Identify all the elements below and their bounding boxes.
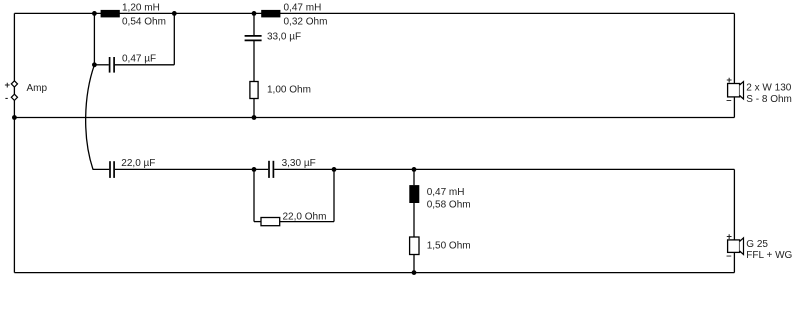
wire C4 to speaker lead — [274, 168, 734, 170]
inductor L1 1,20 mH body — [101, 10, 120, 18]
wire left vertical from top rail to + terminal — [13, 13, 15, 80]
svg-text:0,32 Ohm: 0,32 Ohm — [284, 17, 328, 28]
wire C1 right plate to right riser — [115, 64, 175, 66]
node A (C4 left, R2 top) — [252, 167, 257, 172]
wire to R2 left — [254, 221, 261, 223]
wire node A down to R2 — [253, 169, 255, 221]
wire riser up to top rail at L1 right — [173, 13, 175, 64]
resistor R3 1,50 Ohm — [410, 237, 419, 255]
svg-text:1,00 Ohm: 1,00 Ohm — [267, 84, 311, 95]
svg-text:0,47 µF: 0,47 µF — [122, 53, 156, 64]
node shunt bottom on mid rail — [252, 115, 257, 120]
amp terminal + (diamond) — [11, 81, 17, 87]
wire node C down to L3 — [413, 169, 415, 185]
wire C2 to R1 — [253, 41, 255, 82]
node at L2 left / shunt top — [252, 11, 257, 16]
speaker SP2 tweeter box — [728, 240, 740, 253]
svg-text:FFL + WG: FFL + WG — [746, 250, 792, 261]
inductor L3 0,47 mH body (vertical) — [409, 185, 419, 203]
svg-text:22,0 Ohm: 22,0 Ohm — [283, 211, 327, 222]
wire R1 to mid rail — [253, 99, 255, 118]
amp terminal - (diamond) — [11, 94, 17, 100]
svg-text:+: + — [726, 75, 732, 86]
svg-text:0,58 Ohm: 0,58 Ohm — [427, 200, 471, 211]
wire L3 to R3 — [413, 203, 415, 237]
wire mid rail (woofer section return) — [14, 117, 734, 119]
wire curved feed to tweeter branch — [86, 65, 95, 170]
capacitor C2 33,0 uF plates — [245, 36, 262, 41]
wire node to C1 left plate — [94, 64, 108, 66]
wire riser up to node B — [333, 169, 335, 221]
svg-text:+: + — [5, 80, 11, 91]
node at C1 branch / curve start — [92, 62, 97, 67]
svg-text:0,47 mH: 0,47 mH — [284, 3, 322, 14]
wire L2 shunt: node down to C2 — [253, 13, 255, 35]
svg-text:+: + — [726, 232, 732, 243]
node at L1 left — [92, 11, 97, 16]
wire C3 to node A — [115, 168, 268, 170]
svg-text:3,30 µF: 3,30 µF — [282, 158, 316, 169]
svg-text:2 x W 130: 2 x W 130 — [746, 83, 791, 94]
node L3 shunt bottom on bottom rail — [412, 270, 417, 275]
svg-text:0,47 mH: 0,47 mH — [427, 187, 465, 198]
wire bottom rail (tweeter section return) — [14, 272, 734, 274]
wire branch down from node at L1 left — [93, 13, 95, 64]
svg-text:33,0 µF: 33,0 µF — [267, 32, 301, 43]
svg-text:1,20 mH: 1,20 mH — [122, 3, 160, 14]
wire top rail — [14, 12, 734, 14]
svg-text:22,0 µF: 22,0 µF — [121, 158, 155, 169]
speaker SP1 cone — [740, 82, 744, 99]
resistor R2 22,0 Ohm — [261, 218, 280, 226]
capacitor C1 0,47 uF plates — [110, 57, 115, 73]
wire between amp terminals — [13, 87, 15, 94]
capacitor C4 3,30 uF plates — [269, 161, 273, 178]
speaker SP2 cone — [740, 238, 744, 255]
node amp minus on mid rail — [12, 115, 17, 120]
svg-text:–: – — [726, 95, 731, 106]
wire right vertical into tweeter + — [733, 169, 735, 240]
node C (L3 shunt top) — [412, 167, 417, 172]
svg-text:S - 8 Ohm: S - 8 Ohm — [746, 94, 792, 105]
svg-text:G 25: G 25 — [746, 239, 768, 250]
resistor R1 1,00 Ohm — [250, 82, 258, 99]
svg-text:-: - — [5, 93, 8, 104]
wire R2 right to riser — [280, 221, 334, 223]
wire tweeter - to bottom rail — [733, 252, 735, 272]
wire lower rail left stub to C3 — [93, 168, 110, 170]
node B (C4 right, R2 riser) — [332, 167, 337, 172]
wire R3 to bottom rail — [413, 255, 415, 273]
inductor L2 0,47 mH body — [261, 10, 280, 18]
svg-text:0,54 Ohm: 0,54 Ohm — [122, 17, 166, 28]
wire from - terminal down to bottom rail — [13, 100, 15, 272]
capacitor C3 22,0 uF plates — [110, 161, 114, 178]
svg-text:–: – — [726, 251, 731, 262]
wire woofer - to mid rail — [733, 97, 735, 118]
speaker SP1 woofer box — [728, 84, 740, 97]
wire right vertical into woofer + — [733, 13, 735, 83]
node at L1 right — [172, 11, 177, 16]
svg-text:Amp: Amp — [27, 83, 48, 94]
svg-text:1,50 Ohm: 1,50 Ohm — [427, 241, 471, 252]
